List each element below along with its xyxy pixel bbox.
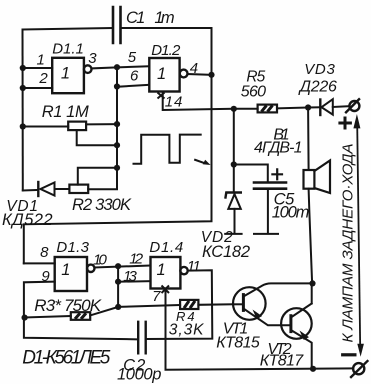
svg-text:5: 5	[128, 49, 137, 66]
svg-text:КД522: КД522	[2, 211, 53, 229]
svg-text:К ЛАМПАМ ЗАДНЕГО·ХОДА: К ЛАМПАМ ЗАДНЕГО·ХОДА	[339, 144, 356, 343]
svg-text:1: 1	[37, 51, 45, 68]
svg-text:D1-К561ЛЕ5: D1-К561ЛЕ5	[22, 348, 110, 369]
svg-text:R1 1M: R1 1M	[42, 103, 89, 121]
svg-text:D1.3: D1.3	[56, 239, 89, 256]
svg-text:1: 1	[157, 65, 166, 83]
svg-text:КС182: КС182	[202, 243, 250, 261]
svg-text:100m: 100m	[272, 204, 310, 222]
svg-text:Д226: Д226	[298, 79, 337, 96]
svg-text:VD3: VD3	[304, 61, 335, 78]
svg-text:9: 9	[41, 268, 50, 285]
svg-text:4ГДВ-1: 4ГДВ-1	[254, 139, 303, 156]
svg-text:7: 7	[152, 288, 161, 305]
svg-text:D1.1: D1.1	[52, 41, 84, 58]
svg-text:14: 14	[165, 94, 183, 111]
svg-text:3,3K: 3,3K	[169, 322, 204, 339]
svg-text:1m: 1m	[154, 9, 174, 27]
svg-text:D1.4: D1.4	[149, 239, 183, 256]
svg-text:1: 1	[157, 261, 166, 279]
svg-text:13: 13	[123, 268, 137, 285]
svg-text:1: 1	[61, 64, 70, 82]
svg-text:2: 2	[38, 70, 48, 87]
svg-text:12: 12	[129, 250, 143, 267]
svg-text:КТ817: КТ817	[260, 352, 304, 369]
svg-text:11: 11	[187, 258, 201, 275]
svg-text:3: 3	[88, 50, 97, 67]
svg-text:10: 10	[93, 252, 107, 269]
svg-text:R2 330K: R2 330K	[72, 196, 132, 214]
svg-text:C1: C1	[126, 9, 145, 27]
svg-text:1000p: 1000p	[117, 366, 161, 384]
svg-text:8: 8	[40, 244, 49, 261]
svg-text:1: 1	[61, 261, 70, 279]
svg-text:КТ815: КТ815	[216, 334, 260, 351]
svg-text:560: 560	[241, 83, 266, 100]
svg-text:6: 6	[130, 68, 139, 85]
svg-text:D1.2: D1.2	[151, 42, 181, 59]
svg-text:R3* 750K: R3* 750K	[34, 296, 101, 315]
svg-text:4: 4	[190, 60, 198, 77]
